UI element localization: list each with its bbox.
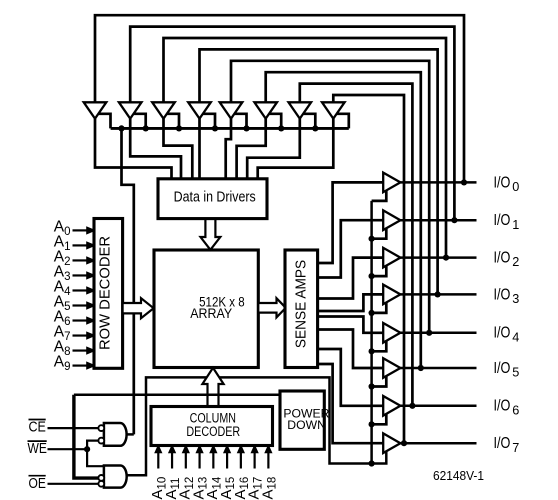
wire I/O5 line [400,367,476,370]
svg-text:I/O: I/O [494,250,511,267]
arrowhead A16 [238,446,244,453]
wire enable spur of input buffer B0 [98,114,111,129]
wire enable hook of output buffer O1 [372,228,387,239]
output buffer O1 [383,210,400,230]
input buffer B1 [119,102,142,118]
arrowhead A0 [87,227,94,233]
arrowhead A10 [155,446,161,453]
hollow arrow: column decoder to array [202,368,223,407]
wire A6 input [73,319,89,321]
wire A0 input [73,229,89,231]
arrowhead A14 [210,446,216,453]
svg-text:4: 4 [512,330,519,344]
input buffer B0 [84,102,107,118]
junction WRITE bus / B3 enable [212,125,218,131]
wire A5 input [73,304,89,306]
power down box [280,391,324,449]
arrowhead A17 [252,446,258,453]
svg-text:ROW DECODER: ROW DECODER [97,236,114,350]
row decoder box [94,219,123,369]
arrowhead A12 [183,446,189,453]
svg-text:I/O: I/O [494,212,511,229]
arrowhead A5 [87,303,94,309]
wire A4 input [73,289,89,291]
overbar OE [29,475,46,477]
wire B0 output staircase to Data in Drivers [95,119,172,179]
wire B7 output staircase to Data in Drivers [258,119,334,179]
junction WRITE bus / gate G1 feed [118,125,124,131]
wire I/O2 line [400,256,476,259]
wire A17 input [254,452,256,469]
junction enable rail / O5 [369,383,375,389]
wire enable hook of output buffer O0 [372,190,387,201]
wire enable spur of input buffer B3 [202,114,215,129]
arrowhead A9 [87,363,94,369]
junction I/O4 tap [426,330,432,336]
wire A18 input [267,452,269,469]
output buffer O4 [383,323,400,343]
svg-text:I/O: I/O [494,286,511,303]
wire power-down/chip-select trunk to gate G2 [74,395,99,478]
wire I/O2 feedback: tap on I/O2 line up over top to input buffer B2 [164,38,447,258]
wire A14 input [212,452,214,469]
gate G2 (output enable AND gate) [104,466,127,488]
wire I/O3 feedback: tap on I/O3 line up over top to input buffer B3 [200,49,438,294]
wire WE to gate G2 input [87,449,104,466]
svg-text:ARRAY: ARRAY [190,305,232,321]
arrowhead A3 [87,272,94,278]
wire sense amp output 7 to output buffer O7 [318,364,385,443]
junction enable rail / O4 [369,348,375,354]
input buffer B5 [254,102,277,118]
junction WRITE bus / B6 enable [312,125,318,131]
wire WRITE bus (input buffer enables) [111,127,349,130]
wire I/O1 feedback: tap on I/O1 line up over top to input buffer B1 [130,27,454,221]
sense amps box [285,250,318,368]
wire G1 output stub [127,433,134,436]
wire I/O3 line [400,293,476,296]
svg-text:I/O: I/O [494,325,511,342]
wire enable spur of input buffer B1 [133,114,146,129]
wire I/O5 feedback: tap on I/O5 line up over top to input buffer B5 [266,72,421,368]
svg-text:Data in Drivers: Data in Drivers [174,189,256,206]
wire B3 output to Data in Drivers [198,119,201,179]
junction I/O0 tap [461,179,467,185]
hollow arrow: data in drivers to array [201,219,221,250]
junction enable rail / O2 [369,273,375,279]
bubble G2 input OE [98,481,104,487]
svg-text:I/O: I/O [494,435,511,452]
wire G1 output riser to WRITE bus [122,128,134,434]
output buffer O7 [383,433,400,453]
wire I/O0 line [400,181,476,184]
arrowhead A13 [197,446,203,453]
wire enable spur of input buffer B2 [166,114,179,129]
junction WRITE bus / B1 enable [143,125,149,131]
wire I/O6 line [400,405,476,408]
junction WRITE bus / B5 enable [278,125,284,131]
wire A7 input [73,334,89,336]
wire A3 input [73,274,89,276]
wire B4 output staircase to Data in Drivers [226,119,231,179]
svg-text:I/O: I/O [494,174,511,191]
wire CE to gate G1 [48,427,99,429]
wire A9 input [73,364,89,366]
arrowhead A18 [265,446,271,453]
svg-text:2: 2 [512,255,519,269]
wire I/O7 line [400,442,476,445]
svg-text:CE: CE [29,420,47,436]
svg-text:DECODER: DECODER [186,424,240,439]
arrowhead A15 [224,446,230,453]
arrowhead A4 [87,287,94,293]
svg-text:DOWN: DOWN [287,418,326,432]
wire WE [48,448,88,450]
svg-text:1: 1 [512,218,519,232]
wire I/O0 feedback: tap on I/O0 line up over top to input buffer B0 [95,15,464,182]
wire enable hook of output buffer O3 [372,302,387,313]
junction I/O7 tap [401,440,407,446]
svg-text:OE: OE [29,476,46,492]
junction enable rail bottom [369,460,375,466]
overbar WE [28,440,47,442]
wire I/O7 feedback: tap on I/O7 line up over top to input buffer B7 [333,95,404,443]
memory array box [154,250,258,368]
wire A1 input [73,244,89,246]
junction I/O1 tap [451,217,457,223]
input buffer B3 [188,102,211,118]
svg-text:62148V-1: 62148V-1 [433,469,484,483]
junction WE branch [84,446,90,452]
wire enable hook of output buffer O6 [372,413,387,424]
overbar CE [29,419,46,421]
wire sense amp output 0 to output buffer O0 [318,182,385,263]
column decoder box [151,407,273,446]
output buffer O0 [383,173,400,193]
wire A15 input [226,452,228,469]
arrowhead A11 [169,446,175,453]
wire chip-select to power down block [74,394,280,397]
svg-text:I/O: I/O [494,398,511,415]
bubble G1 input CE [98,425,104,431]
junction I/O5 tap [418,365,424,371]
wire enable hook of output buffer O2 [372,265,387,276]
wire A8 input [73,349,89,351]
svg-text:SENSE AMPS: SENSE AMPS [294,260,310,348]
wire output buffer enable rail [370,201,373,464]
wire I/O6 feedback: tap on I/O6 line up over top to input buffer B6 [300,84,413,406]
wire sense amp output 3 to output buffer O3 [318,294,385,311]
svg-text:WE: WE [28,441,47,457]
svg-text:I/O: I/O [494,360,511,377]
wire B5 output staircase to Data in Drivers [237,119,266,179]
wire I/O4 feedback: tap on I/O4 line up over top to input buffer B4 [231,61,429,333]
wire I/O4 line [400,332,476,335]
wire OE to gate G2 [48,483,99,485]
arrowhead A7 [87,333,94,339]
wire A16 input [240,452,242,469]
junction I/O2 tap [443,255,449,261]
svg-text:0: 0 [512,180,519,194]
arrowhead A6 [87,318,94,324]
data in drivers box [158,179,267,219]
wire enable spur of input buffer B7 [336,114,349,129]
wire A11 input [171,452,173,469]
wire A10 input [157,452,159,469]
junction WRITE bus / B4 enable [243,125,249,131]
svg-text:3: 3 [512,292,519,306]
output buffer O5 [383,358,400,378]
junction I/O6 tap [409,403,415,409]
hollow arrow: array to sense amps [258,298,286,317]
bubble G1 input WE [98,438,104,444]
arrowhead A8 [87,348,94,354]
wire enable hook of output buffer O5 [372,376,387,387]
wire sense amp output 5 to output buffer O5 [318,330,385,369]
wire sense amp output 1 to output buffer O1 [318,220,385,277]
bubble G2 input power-down [98,475,104,481]
wire enable spur of input buffer B4 [234,114,247,129]
input buffer B4 [220,102,243,118]
hollow arrow: row decoder to array [123,298,154,318]
junction I/O3 tap [435,291,441,297]
input buffer B7 [322,102,345,118]
wire B2 output staircase to Data in Drivers [164,119,193,179]
arrowhead A2 [87,257,94,263]
wire sense amp output 4 to output buffer O4 [318,317,385,333]
junction enable rail / O3 [369,310,375,316]
wire enable hook of output buffer O4 [372,340,387,351]
wire sense amp output 6 to output buffer O6 [318,349,385,406]
svg-text:7: 7 [512,441,519,455]
wire G2 output: output-enable feed to buffer enable rail [126,377,386,475]
wire enable spur of input buffer B6 [302,114,315,129]
svg-text:5: 5 [512,366,519,380]
wire A2 input [73,259,89,261]
junction enable rail / O6 [369,421,375,427]
wire A12 input [185,452,187,469]
junction WRITE bus / B2 enable [176,125,182,131]
wire I/O1 line [400,219,476,222]
wire B1 output staircase to Data in Drivers [130,119,181,179]
junction enable rail / O1 [369,236,375,242]
output buffer O3 [383,285,400,305]
wire WE to gate G1 input [87,441,99,450]
wire B6 output staircase to Data in Drivers [247,119,300,179]
input buffer B6 [289,102,312,118]
svg-text:6: 6 [512,403,519,417]
wire A13 input [198,452,200,469]
output buffer O6 [383,396,400,416]
wire enable spur of input buffer B5 [268,114,281,129]
arrowhead A1 [87,242,94,248]
wire sense amp output 2 to output buffer O2 [318,258,385,299]
output buffer O2 [383,248,400,268]
input buffer B2 [152,102,175,118]
